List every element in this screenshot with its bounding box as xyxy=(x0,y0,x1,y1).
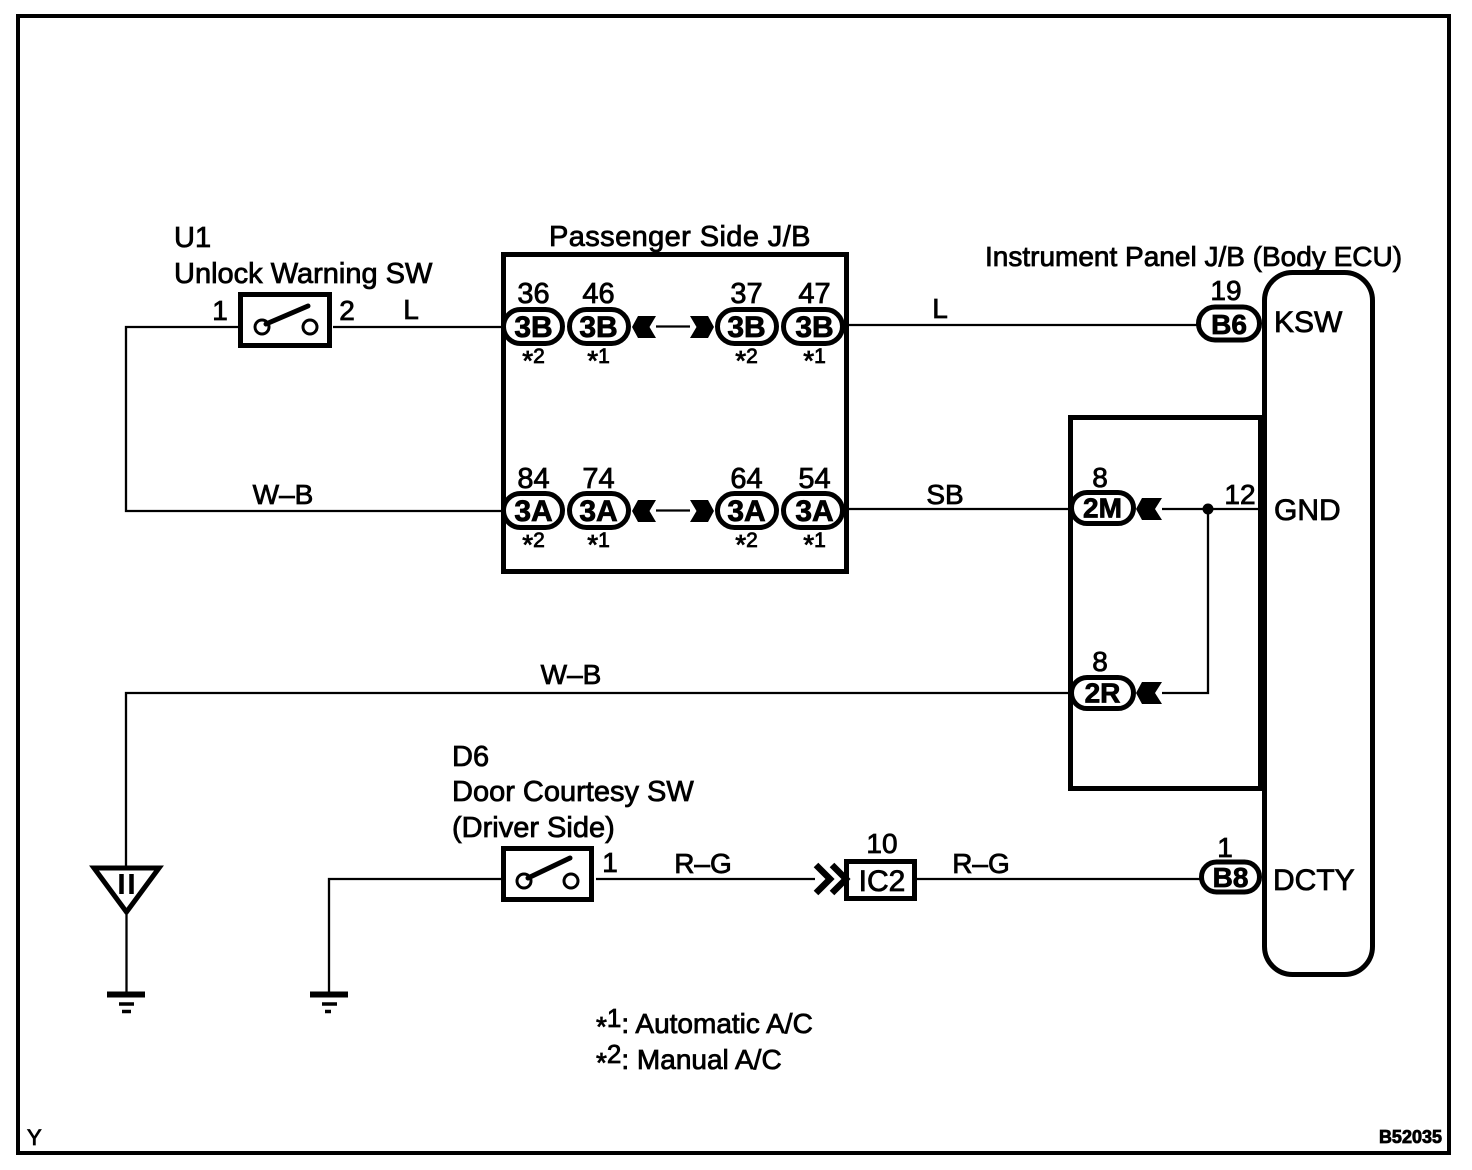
svg-text:84: 84 xyxy=(517,463,549,495)
svg-text:12: 12 xyxy=(1224,479,1255,510)
svg-text:10: 10 xyxy=(866,828,897,859)
svg-text:B8: B8 xyxy=(1213,862,1249,893)
svg-text:3B: 3B xyxy=(579,311,617,344)
wire: 3A 54 to 2M (SB) xyxy=(847,508,1070,510)
svg-text:19: 19 xyxy=(1210,275,1241,306)
svg-text:74: 74 xyxy=(582,463,614,495)
svg-text:SB: SB xyxy=(926,479,963,510)
ground symbol (left) xyxy=(107,995,145,1012)
svg-text:R–G: R–G xyxy=(952,848,1010,879)
svg-text:54: 54 xyxy=(798,463,830,495)
svg-text:Instrument Panel J/B (Body ECU: Instrument Panel J/B (Body ECU) xyxy=(985,241,1402,272)
connector arrow (2M) xyxy=(1136,498,1162,520)
wire: triangle to ground xyxy=(125,915,127,992)
svg-text:IC2: IC2 xyxy=(859,865,906,898)
svg-text:W–B: W–B xyxy=(541,659,602,690)
svg-text:46: 46 xyxy=(582,278,614,310)
svg-text:3A: 3A xyxy=(514,495,552,528)
svg-text:W–B: W–B xyxy=(253,479,314,510)
wire between 3A pairs xyxy=(656,509,690,511)
connector arrow (3B right pair) xyxy=(690,316,714,338)
switch D6 (Door Courtesy SW) xyxy=(504,849,592,900)
wire: D6 to IC2 (R-G) xyxy=(596,878,815,880)
svg-text:8: 8 xyxy=(1092,646,1108,677)
svg-text:64: 64 xyxy=(730,463,762,495)
svg-text:R–G: R–G xyxy=(674,848,732,879)
svg-text:D6: D6 xyxy=(452,741,489,773)
svg-text:3A: 3A xyxy=(795,495,833,528)
svg-text:1: 1 xyxy=(602,847,618,878)
svg-text:Y: Y xyxy=(27,1125,42,1150)
wire: junction down to 2R xyxy=(1162,509,1208,693)
svg-text:DCTY: DCTY xyxy=(1273,864,1355,897)
svg-text:Door Courtesy SW: Door Courtesy SW xyxy=(452,776,694,808)
svg-text:36: 36 xyxy=(517,278,549,310)
ground symbol (right) xyxy=(310,995,348,1012)
svg-text:B52035: B52035 xyxy=(1379,1127,1442,1147)
body ECU connector block xyxy=(1265,273,1373,975)
wire: ground triangle up and right to 2R (W-B) xyxy=(126,693,1071,866)
connector chevrons xyxy=(816,865,846,893)
connector arrow (3A right pair) xyxy=(690,500,714,522)
svg-text:1: 1 xyxy=(212,295,228,326)
svg-text:3B: 3B xyxy=(727,311,765,344)
switch U1 (Unlock Warning SW) xyxy=(241,295,330,346)
svg-text:*1: Automatic A/C: *1: Automatic A/C xyxy=(596,1003,813,1042)
connector arrow (3A left pair) xyxy=(632,500,656,522)
svg-text:37: 37 xyxy=(730,278,762,310)
svg-text:L: L xyxy=(403,294,419,325)
connector arrow (2R) xyxy=(1136,682,1162,704)
wire between 3B pairs xyxy=(656,325,690,327)
svg-text:*2: Manual A/C: *2: Manual A/C xyxy=(596,1039,782,1078)
svg-text:Unlock Warning SW: Unlock Warning SW xyxy=(174,258,433,290)
inner junction box (2M / 2R) xyxy=(1071,418,1261,789)
svg-text:KSW: KSW xyxy=(1274,306,1343,339)
wire: U1 pin 2 to Passenger J/B 3B xyxy=(333,326,503,328)
svg-text:8: 8 xyxy=(1092,462,1108,493)
svg-text:2M: 2M xyxy=(1083,493,1122,524)
svg-text:U1: U1 xyxy=(174,222,211,254)
svg-text:B6: B6 xyxy=(1211,309,1247,340)
ground point triangle II xyxy=(94,868,159,912)
svg-text:3B: 3B xyxy=(795,311,833,344)
wire: IC2 to B8 (R-G) xyxy=(917,878,1200,880)
wire: D6 left to ground xyxy=(329,879,501,992)
svg-text:L: L xyxy=(932,293,948,324)
wire: U1 pin 1 left and down to W-B row xyxy=(126,327,503,511)
svg-text:2: 2 xyxy=(339,295,355,326)
node junction dot xyxy=(1203,504,1214,515)
svg-text:Passenger Side J/B: Passenger Side J/B xyxy=(549,221,811,253)
svg-text:3A: 3A xyxy=(579,495,617,528)
svg-text:3A: 3A xyxy=(727,495,765,528)
svg-text:GND: GND xyxy=(1274,494,1341,527)
svg-text:3B: 3B xyxy=(514,311,552,344)
wire: 2M arrow to GND pin 12 xyxy=(1162,508,1264,510)
connector arrow (3B left pair) xyxy=(632,316,656,338)
wire: 3B 47 to B6 (L) xyxy=(847,324,1198,326)
svg-text:1: 1 xyxy=(1217,832,1233,863)
svg-text:2R: 2R xyxy=(1085,678,1121,709)
svg-text:47: 47 xyxy=(798,278,830,310)
svg-text:(Driver Side): (Driver Side) xyxy=(452,812,615,844)
